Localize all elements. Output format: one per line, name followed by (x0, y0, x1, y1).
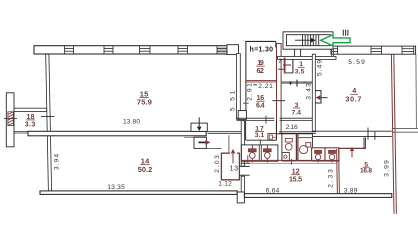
pilaster at end of top-left wall (227, 45, 239, 55)
wc cubicles right (312, 148, 325, 161)
divider rooms 19/16 (246, 79, 277, 81)
bottom wall left segment (40, 191, 237, 195)
red wall right of rooms 19/16 (277, 44, 282, 134)
divider red (295, 134, 297, 161)
room 13 red box (221, 153, 239, 180)
room 4 bottom wall (312, 130, 392, 132)
divider rooms 1/3 (282, 81, 313, 83)
red arrow into room 5 (351, 150, 353, 157)
svg-text:13.80: 13.80 (123, 119, 140, 126)
room 15 label (137, 89, 152, 106)
svg-text:16.8: 16.8 (360, 168, 372, 175)
wall right of room 3 (312, 54, 315, 131)
svg-text:2: 2 (278, 59, 281, 65)
long wall 13.80 (28, 131, 206, 136)
wc cubicles left (241, 145, 278, 161)
svg-text:3.89: 3.89 (344, 187, 358, 194)
svg-text:2.91: 2.91 (246, 83, 253, 101)
svg-text:7.4: 7.4 (292, 109, 302, 116)
svg-text:6.4: 6.4 (256, 102, 265, 109)
room 17 walls (245, 121, 247, 141)
green entrance arrow (321, 35, 350, 46)
svg-text:13.35: 13.35 (107, 184, 125, 191)
room 1 label (295, 61, 305, 75)
bottom wall pilaster (237, 192, 244, 203)
room 5 label (360, 161, 372, 174)
room 2 red riser symbol (284, 58, 286, 73)
windows in top-left wall (65, 46, 228, 54)
room 18 label (25, 114, 36, 129)
svg-text:3.1: 3.1 (255, 132, 265, 139)
vertical dims (53, 60, 390, 188)
corridor 2.16 bottom line (279, 131, 316, 133)
svg-text:3.3: 3.3 (25, 121, 36, 128)
room 19/16 block outline (245, 40, 275, 42)
corridor wall x241 lower (241, 176, 244, 192)
balcony door hatch (8, 112, 13, 126)
svg-text:3.99: 3.99 (383, 160, 390, 177)
corridor wall x241 upper (241, 121, 244, 167)
svg-text:75.9: 75.9 (137, 97, 152, 106)
room 5 top red line (340, 147, 366, 149)
red wall between rooms 12/5 (336, 149, 339, 195)
room 19 label (256, 60, 264, 75)
wash room B (298, 134, 313, 161)
room 15 right wall (237, 54, 241, 120)
left exterior wall (6, 93, 14, 147)
red up arrow room 13 (232, 152, 234, 163)
staircase (283, 32, 333, 49)
room 16 label (256, 95, 265, 109)
shaft box 1 with down arrow (191, 123, 207, 131)
svg-text:2.21: 2.21 (258, 83, 273, 90)
room 17 label (255, 125, 265, 139)
room 4 label (345, 86, 361, 103)
wall y118 under rooms 16/3 (237, 116, 313, 124)
svg-text:2.03: 2.03 (214, 155, 221, 173)
bottom wall right segment (244, 194, 391, 198)
room 12 label (289, 169, 302, 184)
svg-text:5.59: 5.59 (348, 59, 365, 66)
stair landing walls below (294, 49, 296, 56)
door box to room 4 (316, 91, 322, 103)
top exterior wall right section (331, 46, 416, 54)
svg-text:3.5: 3.5 (295, 69, 305, 76)
svg-text:1.12: 1.12 (218, 181, 232, 188)
svg-text:5.49: 5.49 (317, 60, 324, 76)
svg-text:13: 13 (230, 163, 239, 172)
wash room A (282, 134, 297, 161)
svg-text:6.64: 6.64 (266, 187, 280, 194)
wall stub above room 5 (363, 137, 365, 149)
right edge thin wall (415, 54, 418, 128)
svg-text:3.43: 3.43 (305, 83, 312, 100)
red wall below stair right (331, 49, 333, 57)
line to room 13 (206, 148, 221, 150)
door jambs (239, 165, 249, 167)
svg-text:50.2: 50.2 (138, 165, 153, 174)
room 2 walls (292, 59, 294, 73)
room 14 label (138, 156, 153, 173)
corridor top lines (208, 130, 242, 132)
room 18 bottom lines (14, 131, 28, 133)
red bottom line of cubicles (241, 159, 339, 161)
svg-text:30.7: 30.7 (345, 94, 361, 103)
windows in top-right wall (331, 46, 414, 54)
red wall right side (391, 54, 394, 214)
room 3 label (292, 102, 302, 117)
red arrow into room 3 (319, 97, 328, 99)
stair arrow head (311, 38, 316, 43)
dimension labels black (107, 46, 365, 194)
pilaster bottom of wall (238, 111, 246, 120)
top exterior wall left section (34, 46, 238, 54)
room 18 top wall (14, 108, 47, 111)
svg-text:2.33: 2.33 (327, 169, 334, 188)
toilet 1 (249, 145, 257, 162)
rooms 1/2 top band (278, 56, 336, 59)
III marks (343, 30, 348, 36)
tick red left wall (243, 102, 249, 104)
svg-text:6.2: 6.2 (256, 68, 264, 75)
shaft box 2 with red arrow (194, 137, 206, 148)
svg-text:h=1.30: h=1.30 (250, 46, 274, 53)
svg-text:2.16: 2.16 (286, 124, 298, 131)
svg-text:5.51: 5.51 (229, 91, 236, 111)
tick right wall room16 (272, 100, 285, 102)
svg-text:15.5: 15.5 (289, 176, 302, 183)
left wall of rooms 15/14 (46, 54, 52, 191)
small wc room 17 (268, 134, 276, 141)
svg-text:3.94: 3.94 (53, 154, 60, 170)
toilet 2 (264, 145, 272, 162)
wall extension to right edge (392, 127, 418, 129)
